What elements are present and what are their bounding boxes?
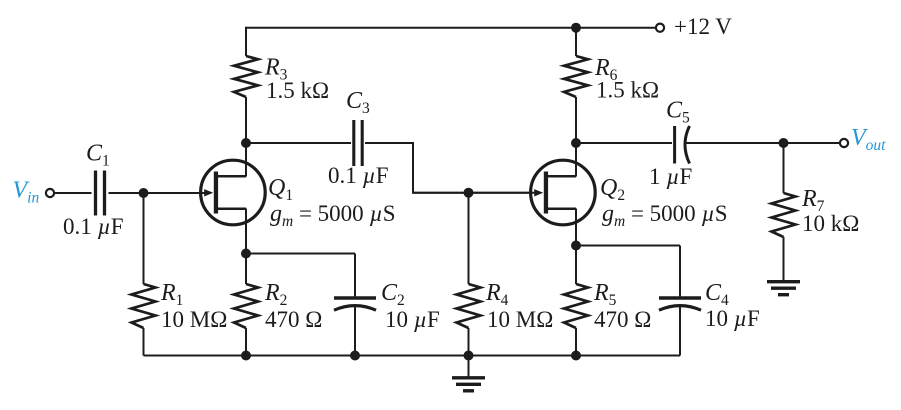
svg-text:0.1 µF: 0.1 µF: [328, 163, 389, 188]
svg-text:C4: C4: [705, 280, 729, 309]
svg-text:R1: R1: [160, 280, 183, 309]
svg-text:10 kΩ: 10 kΩ: [802, 211, 859, 236]
svg-text:1.5 kΩ: 1.5 kΩ: [596, 78, 659, 103]
svg-text:Vin: Vin: [13, 178, 40, 207]
svg-text:R2: R2: [264, 280, 287, 309]
svg-text:C3: C3: [346, 88, 370, 117]
svg-text:+12 V: +12 V: [674, 14, 732, 39]
svg-text:gm = 5000 µS: gm = 5000 µS: [270, 201, 396, 230]
svg-text:R4: R4: [485, 280, 509, 309]
svg-text:R5: R5: [593, 280, 617, 309]
svg-text:Q2: Q2: [600, 175, 625, 204]
svg-text:470 Ω: 470 Ω: [265, 307, 322, 332]
svg-text:gm = 5000 µS: gm = 5000 µS: [602, 201, 728, 230]
svg-text:1 µF: 1 µF: [649, 164, 692, 189]
svg-text:10 µF: 10 µF: [385, 307, 440, 332]
svg-text:1.5 kΩ: 1.5 kΩ: [266, 78, 329, 103]
svg-text:10 MΩ: 10 MΩ: [487, 307, 553, 332]
svg-text:Q1: Q1: [268, 175, 293, 204]
svg-text:10 µF: 10 µF: [705, 306, 760, 331]
svg-text:C5: C5: [666, 98, 690, 127]
svg-text:10 MΩ: 10 MΩ: [161, 307, 227, 332]
svg-text:C1: C1: [86, 141, 110, 170]
svg-text:Vout: Vout: [851, 125, 886, 154]
svg-text:470 Ω: 470 Ω: [594, 307, 651, 332]
svg-text:C2: C2: [381, 280, 405, 309]
svg-text:0.1 µF: 0.1 µF: [63, 214, 124, 239]
